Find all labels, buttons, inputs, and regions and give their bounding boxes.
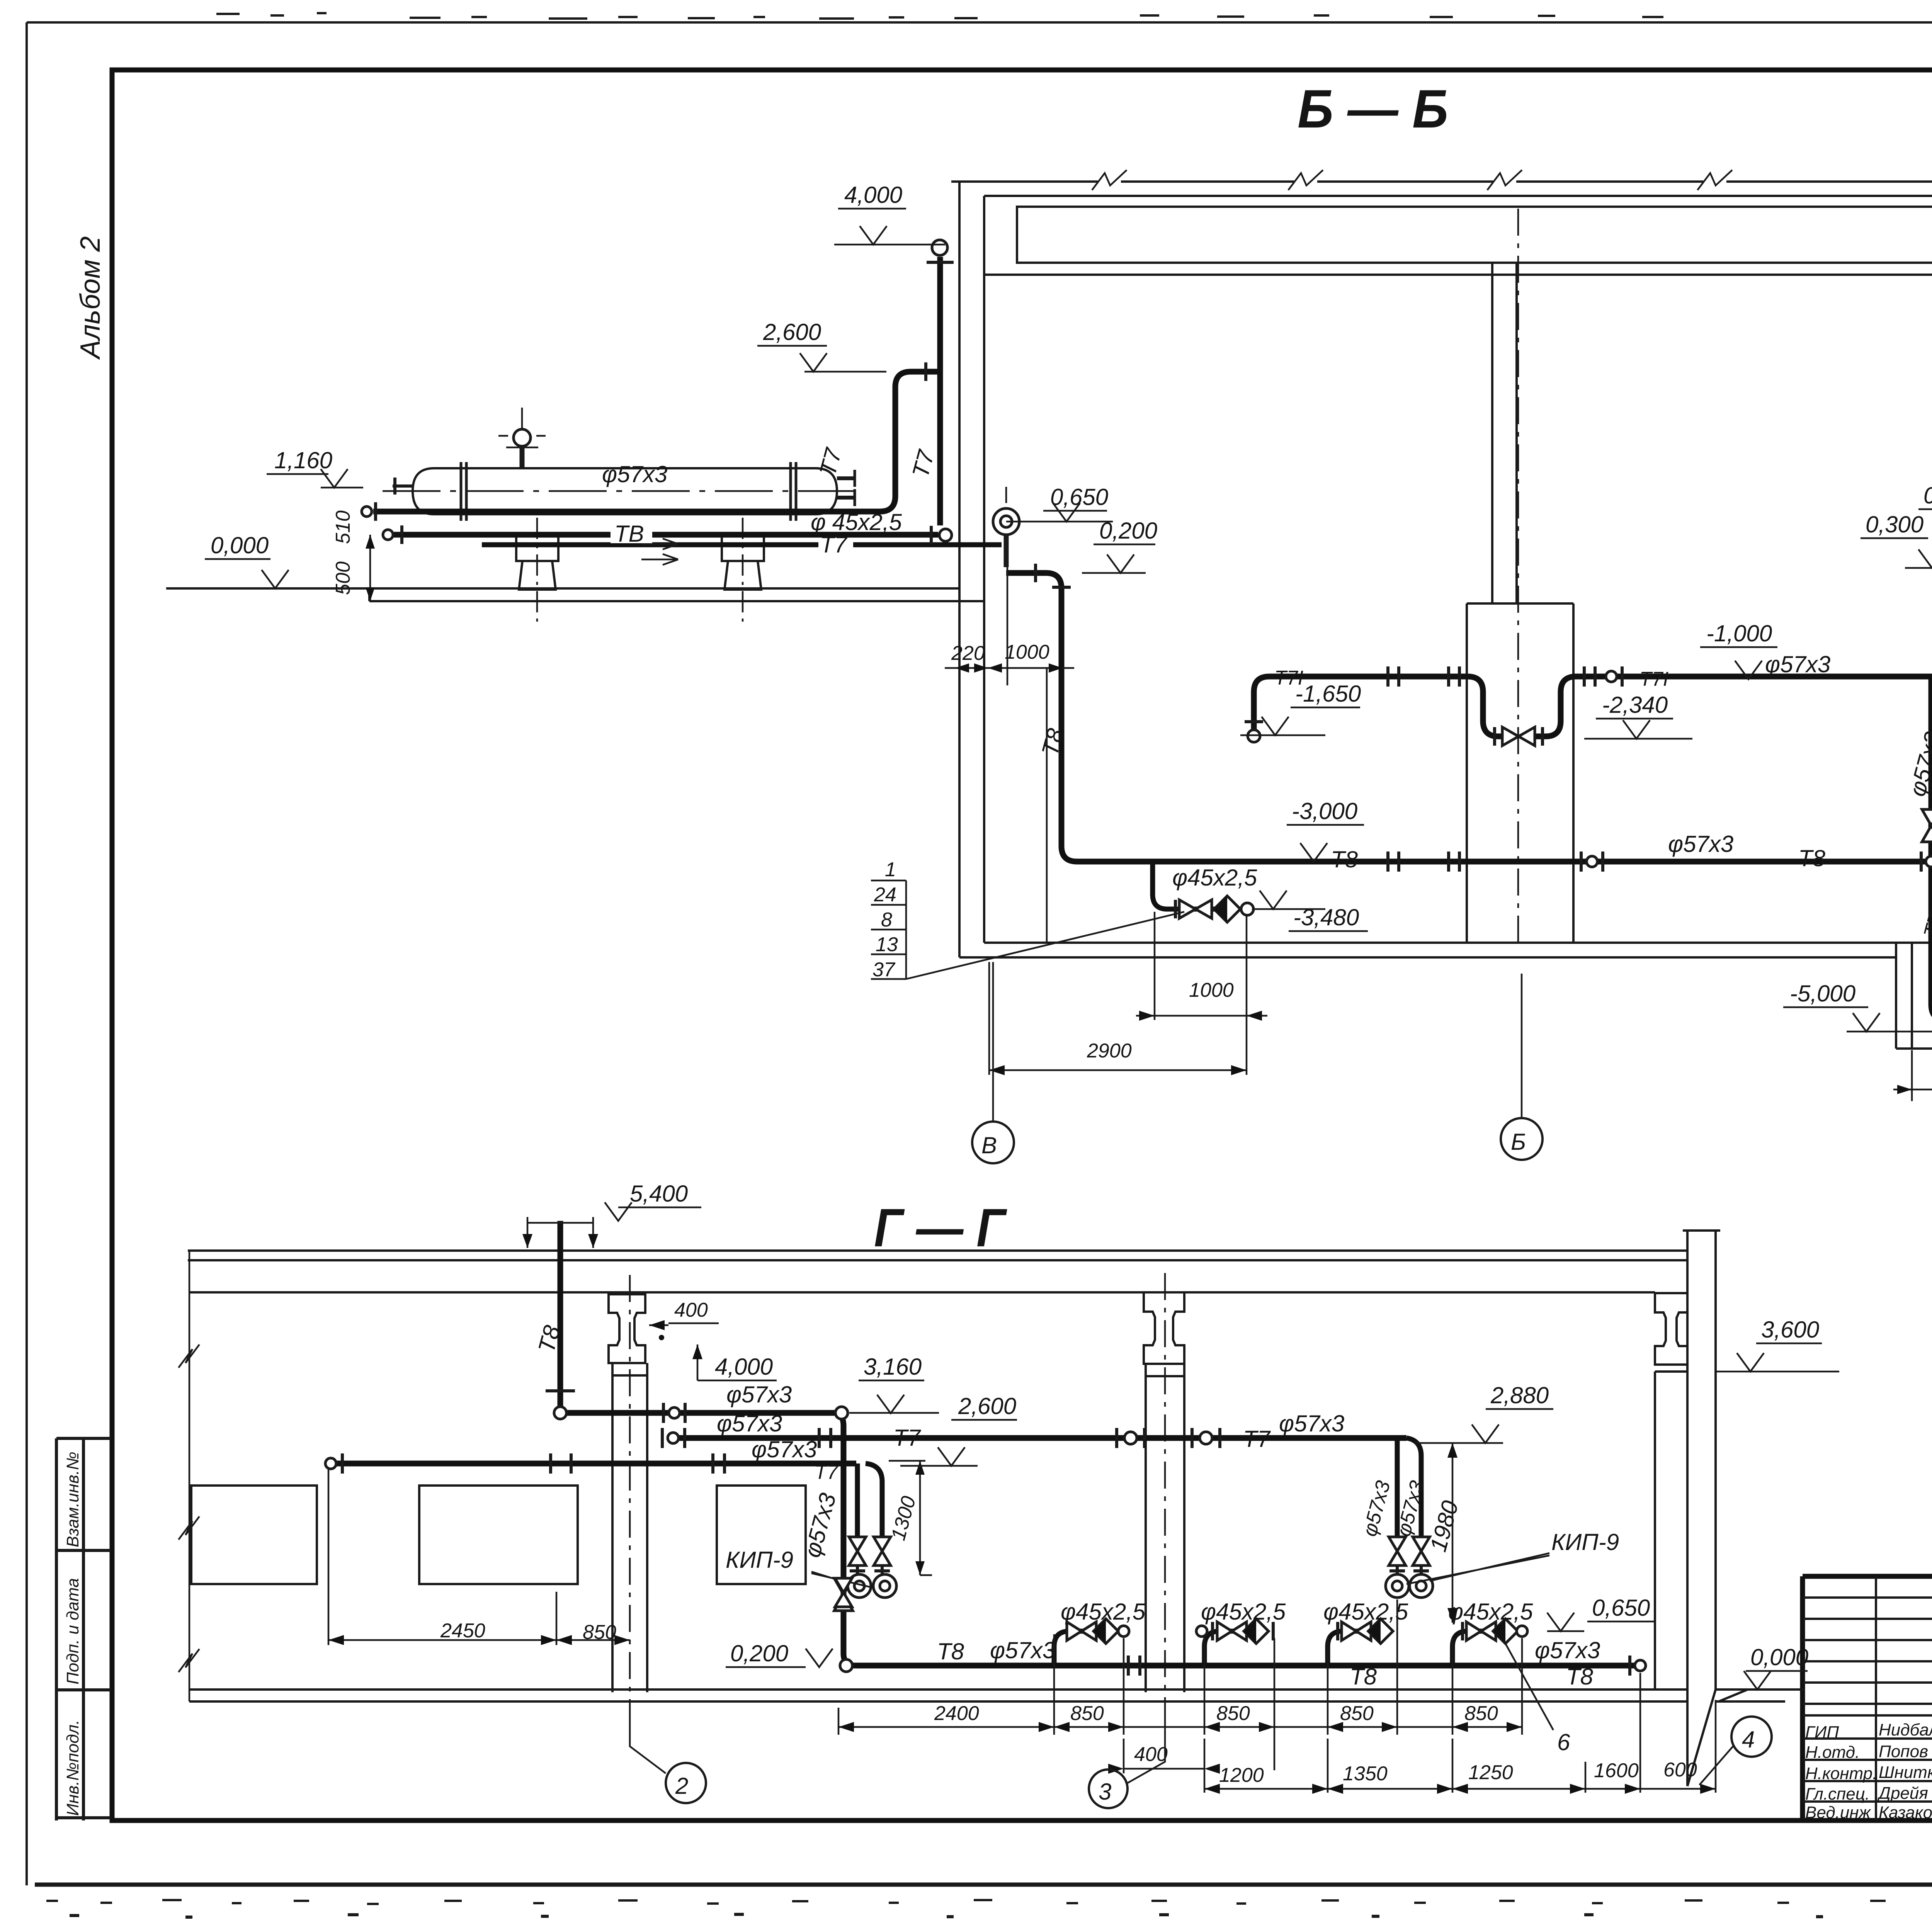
svg-text:φ57x3: φ57x3 (1668, 831, 1733, 857)
run 2880 risers right (1397, 1438, 1421, 1536)
svg-text:φ57x3: φ57x3 (1765, 651, 1830, 677)
svg-text:220: 220 (951, 642, 985, 665)
svg-text:Н.отд.: Н.отд. (1805, 1743, 1860, 1762)
sump pit (1896, 944, 1932, 1049)
valve on T7I riser (1922, 809, 1932, 842)
svg-text:2,600: 2,600 (763, 319, 821, 345)
column centerline (1517, 209, 1519, 943)
svg-text:6: 6 (1557, 1729, 1570, 1755)
svg-text:φ45x2,5: φ45x2,5 (1061, 1599, 1146, 1625)
pipe start circle (362, 507, 372, 517)
column 2 centerline (1164, 1273, 1166, 1708)
svg-text:В: В (981, 1132, 997, 1158)
svg-text:Т8: Т8 (1566, 1664, 1594, 1690)
svg-text:φ57x3: φ57x3 (752, 1436, 817, 1462)
valve on main riser (834, 1578, 853, 1611)
run B flange circles at column (1124, 1432, 1137, 1444)
svg-text:-5,000: -5,000 (1790, 981, 1855, 1006)
column 1 (612, 1363, 647, 1692)
KIP valves left (849, 1537, 891, 1565)
svg-text:φ45x2,5: φ45x2,5 (1448, 1599, 1533, 1625)
TM run with dip (1254, 488, 1932, 736)
svg-text:Т7I: Т7I (1639, 668, 1668, 690)
shell flange pair right (791, 462, 796, 521)
svg-text:8: 8 (881, 909, 892, 931)
svg-text:2: 2 (675, 1773, 688, 1799)
svg-text:Т8: Т8 (1350, 1664, 1377, 1690)
svg-text:φ57x3: φ57x3 (1279, 1411, 1344, 1436)
run C lower T7 (332, 1461, 856, 1467)
dim chain row 1 (838, 1599, 1522, 1770)
window opening 2 (419, 1486, 578, 1584)
left end nozzle (393, 478, 413, 495)
svg-text:Б — Б: Б — Б (1298, 78, 1448, 139)
window opening 1 (191, 1486, 317, 1584)
svg-text:2400: 2400 (934, 1702, 979, 1725)
gate valve on branch (1179, 900, 1212, 918)
column 1 centerline (629, 1275, 631, 1700)
roof slab lines (188, 1251, 1687, 1292)
flange pairs on TM run (1388, 666, 1595, 687)
svg-text:24: 24 (874, 884, 896, 906)
svg-text:850: 850 (1464, 1702, 1498, 1725)
svg-text:ТВ: ТВ (614, 521, 644, 547)
right wall column (1683, 1231, 1720, 1786)
svg-text:-1,000: -1,000 (1706, 620, 1772, 646)
riser top circle (932, 240, 947, 255)
branch end circle (1241, 903, 1253, 915)
svg-text:Т7: Т7 (815, 1461, 839, 1484)
flange on 2600 stub (924, 362, 927, 381)
svg-text:0,650: 0,650 (1592, 1595, 1650, 1621)
svg-text:Т8: Т8 (1331, 846, 1358, 872)
svg-text:φ45x2,5: φ45x2,5 (1323, 1599, 1408, 1625)
axis circle 3 (1128, 1708, 1165, 1783)
svg-text:0,000: 0,000 (1750, 1644, 1808, 1670)
svg-text:φ45x2,5: φ45x2,5 (1201, 1599, 1286, 1625)
svg-text:φ57x3: φ57x3 (990, 1637, 1055, 1663)
branch group 2 (1204, 1631, 1268, 1666)
KIP instruments left (848, 1574, 871, 1598)
KIP risers left pair (857, 1463, 882, 1536)
TB start circle (383, 530, 393, 540)
junction circle T8xT7I (1926, 856, 1932, 867)
svg-text:Н.контр.: Н.контр. (1805, 1764, 1877, 1783)
riser top leader (527, 1217, 593, 1248)
svg-text:Альбом 2: Альбом 2 (75, 236, 106, 360)
label T7 on lower pipe (818, 538, 853, 554)
apparatus support saddles (516, 535, 764, 590)
svg-text:1250: 1250 (1468, 1761, 1513, 1784)
svg-text:1: 1 (885, 858, 896, 881)
flange circle on TM run (1606, 671, 1617, 682)
svg-text:3,600: 3,600 (1761, 1317, 1819, 1343)
flange pairs on T8 run (1388, 852, 1459, 872)
axis circle В (972, 1122, 1014, 1163)
axis circle 2 (630, 1700, 666, 1773)
T8 run end (1635, 1660, 1646, 1671)
svg-text:850: 850 (1070, 1702, 1104, 1725)
svg-text:2,600: 2,600 (958, 1393, 1016, 1419)
svg-text:1600: 1600 (1594, 1759, 1639, 1782)
svg-text:4,000: 4,000 (844, 182, 902, 208)
crane beam right wall (1655, 1293, 1687, 1372)
floor lines (189, 1690, 1804, 1701)
svg-text:0,200: 0,200 (730, 1640, 788, 1666)
svg-text:Дрейя: Дрейя (1877, 1784, 1928, 1803)
svg-text:850: 850 (1216, 1702, 1250, 1725)
pipe TB (394, 532, 938, 538)
T8 riser from roof (558, 1221, 563, 1406)
svg-text:Инв.№подл.: Инв.№подл. (63, 1720, 82, 1816)
svg-text:2450: 2450 (440, 1620, 485, 1642)
svg-text:0,000: 0,000 (211, 532, 269, 558)
branch group 4 (1452, 1631, 1516, 1666)
ceiling soffit line (984, 274, 1932, 276)
heat exchanger shell (413, 468, 837, 514)
left wall (959, 182, 984, 603)
svg-text:Т7I: Т7I (1274, 667, 1303, 689)
T7 riser right (4.000) (937, 257, 943, 525)
svg-text:ГИП: ГИП (1805, 1723, 1839, 1742)
pipe d57x3 from apparatus (373, 372, 940, 512)
svg-text:Г — Г: Г — Г (874, 1197, 1007, 1258)
building wall underground (959, 587, 984, 957)
svg-text:φ57x3: φ57x3 (717, 1411, 782, 1436)
svg-text:Подп. и дата: Подп. и дата (63, 1578, 82, 1684)
wall junction circle (939, 529, 952, 541)
svg-text:4,000: 4,000 (715, 1354, 773, 1380)
svg-text:Т7: Т7 (820, 532, 848, 558)
svg-text:400: 400 (674, 1299, 708, 1321)
svg-text:-2,340: -2,340 (1602, 692, 1668, 718)
column pedestal (1467, 603, 1573, 943)
svg-text:Гл.спец.: Гл.спец. (1805, 1785, 1870, 1803)
svg-text:0,580: 0,580 (1923, 483, 1932, 508)
left stamp boxes (56, 1438, 111, 1820)
T8 run flange pair (1128, 1656, 1140, 1676)
run B long T7 (674, 1435, 1406, 1441)
nozzle valve circle (514, 429, 531, 446)
svg-text:2900: 2900 (1087, 1040, 1132, 1062)
roof slab second line (984, 195, 1932, 197)
TM end circle (1248, 730, 1260, 742)
pipe T7 lower (482, 542, 1002, 547)
svg-text:1000: 1000 (1005, 641, 1049, 663)
roof slab top chord (951, 180, 1932, 183)
roof break marks (1092, 170, 1932, 190)
svg-text:3,160: 3,160 (864, 1354, 922, 1380)
branch group 3 (1328, 1631, 1391, 1666)
window opening 3 (717, 1486, 806, 1584)
right end nozzles (837, 478, 855, 498)
left break edge (189, 1251, 190, 1701)
svg-text:-1,650: -1,650 (1295, 681, 1361, 707)
svg-text:Т7: Т7 (1243, 1426, 1271, 1452)
leader from 37 to valve (906, 912, 1184, 979)
svg-text:Т7: Т7 (893, 1425, 922, 1451)
svg-text:500: 500 (332, 561, 354, 595)
svg-text:КИП-9: КИП-9 (1551, 1529, 1619, 1555)
svg-text:Б: Б (1511, 1129, 1526, 1155)
run A d57x3 (561, 1410, 835, 1416)
svg-text:φ57x3: φ57x3 (602, 461, 667, 487)
flange circle on T8 run (1587, 856, 1597, 867)
svg-text:Т8: Т8 (937, 1639, 964, 1664)
run A flange circle (669, 1407, 680, 1418)
run A left elbow circle (554, 1407, 566, 1419)
svg-text:13: 13 (876, 933, 898, 956)
axis circle Б (1501, 1118, 1543, 1160)
right KIP instruments (1386, 1574, 1409, 1598)
instrument 0.650 (993, 508, 1019, 535)
svg-text:1,160: 1,160 (274, 447, 332, 473)
column 2 (1146, 1364, 1184, 1692)
ground line left (166, 588, 984, 601)
shell centerline (383, 490, 862, 492)
right riser valves (1389, 1537, 1430, 1565)
svg-text:КИП-9: КИП-9 (726, 1547, 793, 1573)
right wall inner line (1654, 1372, 1656, 1690)
axis line В (992, 962, 994, 1122)
svg-text:3: 3 (1099, 1779, 1111, 1805)
svg-text:Вед.инж: Вед.инж (1805, 1803, 1871, 1822)
svg-text:φ 45x2,5: φ 45x2,5 (811, 509, 902, 535)
ceiling panel (1017, 207, 1932, 263)
pipe 0.200 to T8 riser (1006, 573, 1077, 862)
dim chain row 2 (1204, 1673, 1716, 1793)
break marks left edge (179, 1344, 199, 1672)
svg-text:850: 850 (1340, 1702, 1374, 1725)
svg-text:Казакова: Казакова (1879, 1803, 1932, 1822)
svg-text:2,880: 2,880 (1490, 1382, 1549, 1408)
svg-text:1200: 1200 (1219, 1764, 1264, 1786)
svg-text:φ57x3: φ57x3 (1535, 1637, 1600, 1663)
T8 bottom run (855, 1663, 1640, 1669)
svg-text:Попов: Попов (1879, 1742, 1928, 1761)
svg-text:-3,000: -3,000 (1292, 798, 1357, 824)
svg-text:1350: 1350 (1343, 1763, 1388, 1785)
T8 run -3.000 (1077, 859, 1932, 865)
svg-text:0,200: 0,200 (1099, 518, 1157, 544)
svg-text:0,650: 0,650 (1050, 484, 1108, 510)
valve in dip (1502, 727, 1535, 746)
check valve diamond (1214, 896, 1240, 922)
small arrows on T7 (641, 539, 678, 565)
crane beam column 1 (609, 1294, 645, 1363)
center column axis Б (1492, 263, 1517, 603)
valve below left KIP group (835, 1578, 852, 1607)
svg-text:Взам.инв.№: Взам.инв.№ (63, 1452, 82, 1547)
svg-text:φ45x2,5: φ45x2,5 (1172, 865, 1257, 891)
top nozzle (520, 447, 525, 468)
T7I riser to sump (1931, 679, 1932, 1020)
main riser to T8 (835, 1413, 855, 1666)
basement floor (959, 943, 1932, 957)
svg-text:1000: 1000 (1189, 979, 1234, 1001)
svg-text:Шнитко: Шнитко (1879, 1763, 1932, 1782)
axis line Б (1521, 974, 1523, 1118)
shell flange pair left (461, 462, 466, 521)
axis circle 4 (1699, 1746, 1733, 1785)
svg-text:Нидбальский: Нидбальский (1879, 1720, 1932, 1739)
svg-text:φ57x3: φ57x3 (726, 1382, 792, 1407)
svg-text:600: 600 (1663, 1759, 1697, 1781)
crane beam column 2 (1144, 1292, 1184, 1364)
svg-text:4: 4 (1742, 1727, 1755, 1752)
label TB on TB pipe (611, 525, 652, 543)
branch group 1 (1054, 1631, 1117, 1666)
svg-text:0,300: 0,300 (1866, 512, 1923, 537)
svg-text:510: 510 (332, 510, 354, 544)
branch d45x2.5 left (1153, 864, 1240, 909)
svg-text:37: 37 (872, 959, 896, 981)
svg-text:5,400: 5,400 (630, 1181, 688, 1207)
main title block (1803, 1576, 1932, 1822)
svg-text:Т8: Т8 (1798, 845, 1826, 871)
